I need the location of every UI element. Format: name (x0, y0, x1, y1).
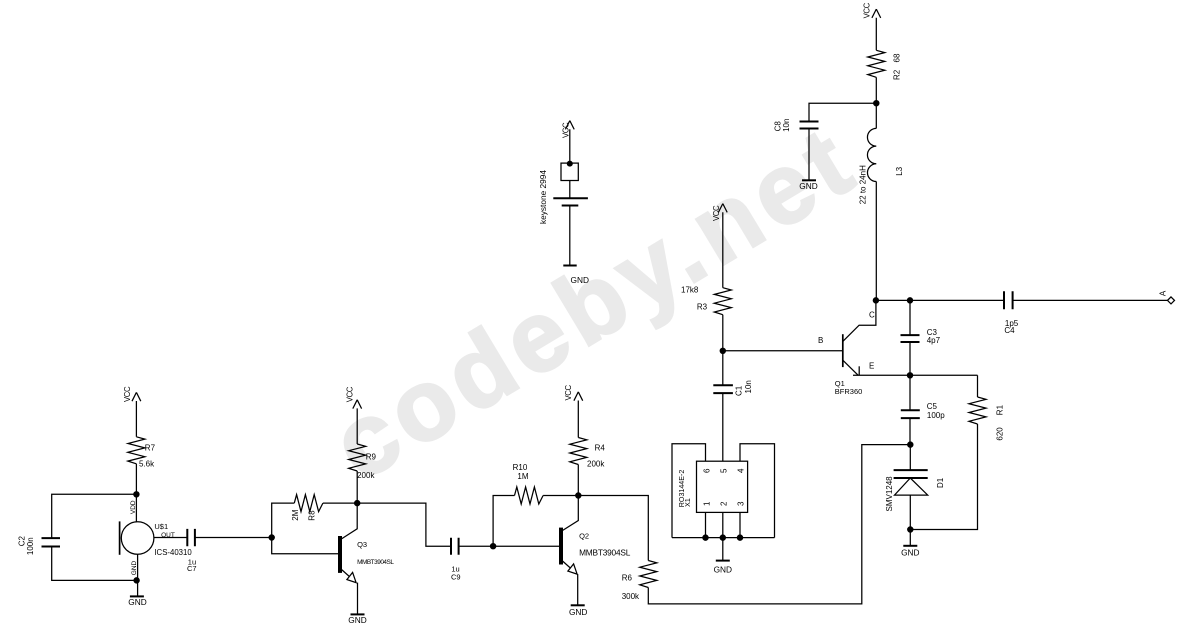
node junction C9/R10/Q2 base (491, 544, 496, 549)
wire Q3 collector node to C9 (357, 503, 451, 546)
svg-text:4: 4 (737, 468, 746, 473)
transistor Q3 (340, 503, 358, 614)
svg-text:17k8: 17k8 (681, 286, 699, 295)
wire R9 to junction (356, 471, 358, 503)
svg-text:22 to 24nH: 22 to 24nH (858, 165, 867, 204)
resistor R3 (714, 288, 731, 315)
wire R6 to varactor node (bottom rail) (648, 445, 910, 604)
svg-text:GND: GND (571, 275, 589, 285)
svg-text:100n: 100n (26, 537, 35, 555)
svg-text:GND: GND (799, 181, 817, 191)
svg-text:R7: R7 (145, 444, 156, 453)
svg-text:C9: C9 (451, 573, 461, 582)
svg-text:C4: C4 (1004, 326, 1015, 335)
svg-text:OUT: OUT (161, 532, 175, 539)
node A pin (1168, 297, 1175, 304)
wire C1 to X1 pin5 (722, 393, 724, 461)
svg-text:10n: 10n (782, 119, 791, 132)
wire collector rail to C4 (876, 299, 1004, 301)
wire D1 to gnd (909, 530, 911, 546)
svg-text:VCC: VCC (562, 122, 571, 138)
capacitor C2 (42, 538, 61, 546)
supply VCC (battery) (565, 121, 574, 164)
node junction D1/R1/gnd (908, 527, 913, 532)
node junction R2/C8/L3 (874, 101, 879, 106)
node junction R3/C1/Q1 base (720, 348, 725, 353)
wire node down to Q3 base (272, 538, 339, 554)
svg-text:Q3: Q3 (357, 540, 367, 549)
X1 bottom rail (672, 537, 775, 539)
svg-text:U$1: U$1 (154, 522, 168, 531)
node junction R9/R8/Q3 collector/C9 (355, 501, 360, 506)
svg-text:BFR360: BFR360 (835, 387, 863, 396)
node junction emitter/C3/C5 (907, 373, 912, 378)
wire C9 to Q2 base node (459, 545, 494, 547)
node junction L3/Q1 collector/C3 rail (873, 298, 878, 303)
node junction C7/R8/Q3 base (269, 535, 274, 540)
wire X1 to gnd (722, 538, 724, 561)
wire emitter rail down to R1 (977, 375, 979, 397)
svg-text:200k: 200k (587, 460, 605, 469)
svg-text:620: 620 (996, 427, 1005, 441)
svg-text:GND: GND (714, 564, 732, 574)
wire C7 to Q3 base node (195, 537, 272, 539)
svg-text:R2: R2 (893, 69, 902, 80)
node junction mic gnd / C2 (134, 578, 139, 583)
svg-text:100p: 100p (927, 411, 945, 420)
ground (mic) (130, 595, 144, 597)
svg-text:SMV1248: SMV1248 (885, 476, 894, 512)
ground (X1) (716, 560, 730, 562)
svg-text:R6: R6 (622, 573, 633, 582)
wire C4 to node A (1013, 299, 1168, 301)
svg-text:5: 5 (720, 468, 729, 473)
resistor R2 (868, 50, 885, 77)
svg-text:X1: X1 (684, 498, 692, 507)
capacitor C1 (713, 385, 733, 393)
svg-text:C7: C7 (187, 564, 197, 573)
wire mic OUT to C7 (154, 537, 187, 539)
wire R2 to L3 (875, 77, 877, 128)
wire R1 to D1 node (910, 424, 977, 530)
ground (Q3) (351, 613, 365, 615)
svg-text:5.6k: 5.6k (139, 460, 155, 469)
wire node to Q1 base (723, 350, 843, 352)
resistor R10 (515, 487, 544, 504)
svg-text:R10: R10 (513, 463, 528, 472)
svg-text:E: E (869, 362, 874, 371)
wire R8 to Q3 collector node (323, 502, 357, 504)
svg-text:D1: D1 (936, 477, 945, 488)
svg-text:MMBT3904SL: MMBT3904SL (579, 548, 631, 558)
junction dots X1 pins (703, 535, 708, 540)
svg-text:1: 1 (703, 501, 712, 506)
svg-text:R3: R3 (697, 303, 708, 312)
wire R10 to Q2 collector node (543, 495, 578, 497)
svg-text:MMBT3904SL: MMBT3904SL (357, 559, 394, 566)
svg-text:A: A (1159, 290, 1168, 296)
wire node to C8 (809, 103, 876, 121)
ground (D1) (903, 545, 917, 547)
svg-text:VDD: VDD (130, 500, 137, 514)
supply VCC (Q3) (353, 400, 362, 444)
wire L3 to collector rail (875, 182, 877, 301)
wire C8 to gnd (808, 129, 810, 181)
resistor R7 (128, 437, 145, 464)
wire Q1 emitter rail (853, 374, 978, 376)
svg-text:R9: R9 (366, 453, 377, 462)
node junction R4/R10/Q2 collector/R6 (576, 493, 581, 498)
capacitor C9 (451, 538, 459, 555)
svg-text:B: B (818, 336, 823, 345)
ground (Q2) (571, 604, 585, 606)
svg-text:3: 3 (737, 501, 746, 506)
svg-text:GND: GND (131, 560, 138, 575)
wire C2 to gnd rail (52, 547, 137, 581)
wire node up to R8 (272, 503, 295, 537)
svg-text:VCC: VCC (712, 205, 721, 221)
node junction R7/C2/VDD (134, 492, 139, 497)
svg-text:10n: 10n (744, 380, 753, 393)
supply VCC (R3) (718, 204, 727, 288)
svg-text:keystone 2994: keystone 2994 (538, 170, 548, 224)
svg-text:R1: R1 (996, 404, 1005, 415)
wire node to Q2 base (493, 545, 559, 547)
svg-text:C1: C1 (735, 385, 744, 396)
battery holder G1 keystone 2994 (553, 161, 588, 265)
resistor R1 (969, 397, 986, 424)
wire R3 to base node (722, 315, 724, 386)
capacitor C8 (800, 122, 819, 129)
wire junction to R6 (578, 496, 648, 561)
X1 pins 1,2,3 wires (706, 512, 741, 537)
svg-text:1M: 1M (517, 472, 528, 481)
supply VCC (Q2) (574, 392, 583, 438)
resistor R4 (570, 438, 587, 465)
svg-text:L3: L3 (895, 166, 904, 175)
svg-text:GND: GND (569, 607, 587, 617)
supply VCC (R2) (872, 9, 881, 50)
wire R4 to junction (577, 465, 579, 496)
wire junction to C2 (52, 494, 137, 538)
svg-text:6: 6 (703, 468, 712, 473)
transistor Q2 (561, 496, 578, 606)
svg-text:R4: R4 (595, 444, 606, 453)
SAW resonator X1 RO3144E-2 (697, 461, 748, 512)
wire R7 to mic VDD (135, 464, 137, 522)
inductor L3 (867, 128, 876, 181)
svg-text:300k: 300k (622, 592, 640, 601)
resistor R8 (294, 495, 323, 512)
wire mic GND pin (137, 554, 139, 596)
svg-text:VCC: VCC (564, 384, 573, 400)
transistor Q1 (843, 300, 876, 375)
ground (C8) (802, 179, 816, 181)
svg-text:Q2: Q2 (579, 532, 589, 541)
ground (battery) (563, 265, 576, 267)
svg-text:VCC: VCC (345, 386, 354, 402)
svg-text:2M: 2M (291, 509, 300, 520)
svg-text:4p7: 4p7 (927, 336, 941, 345)
X1 pin 6 wire (672, 444, 706, 538)
svg-text:R8: R8 (308, 510, 317, 521)
svg-text:ICS-40310: ICS-40310 (154, 548, 192, 557)
supply VCC (mic) (132, 392, 141, 436)
X1 pin 4 wire (740, 444, 775, 538)
svg-text:GND: GND (348, 615, 366, 625)
capacitor C3 (901, 300, 920, 375)
svg-text:VCC: VCC (123, 386, 132, 402)
node junction C5/D1/R6-wire (908, 442, 913, 447)
capacitor C7 (187, 529, 195, 546)
resistor R6 (640, 561, 657, 588)
svg-text:GND: GND (901, 548, 919, 558)
svg-text:2: 2 (720, 501, 729, 506)
wire node up to R10 (493, 496, 514, 547)
svg-text:GND: GND (128, 597, 146, 607)
resistor R9 (349, 444, 366, 471)
varactor diode D1 SMV1248 (894, 445, 928, 530)
capacitor C4 (1004, 291, 1013, 309)
svg-text:C: C (869, 311, 875, 320)
svg-text:68: 68 (893, 53, 902, 62)
svg-text:VCC: VCC (863, 2, 872, 18)
svg-text:200k: 200k (357, 471, 375, 480)
svg-text:C5: C5 (927, 402, 938, 411)
microphone U$1 (120, 521, 154, 554)
capacitor C5 (901, 375, 920, 444)
